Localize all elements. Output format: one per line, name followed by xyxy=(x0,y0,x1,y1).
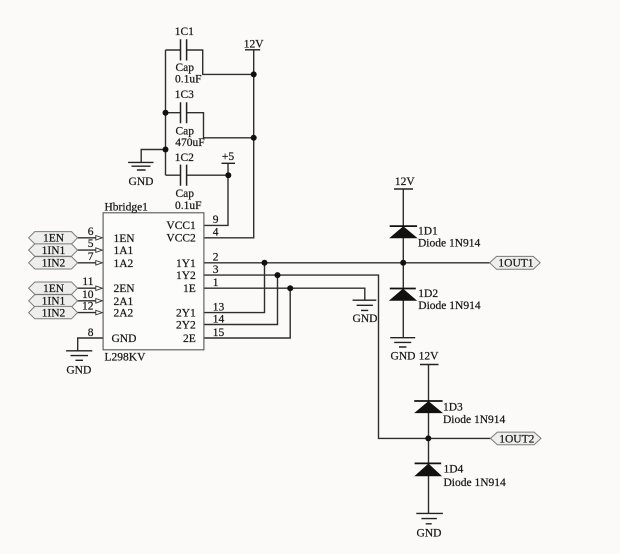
svg-text:2A1: 2A1 xyxy=(114,296,134,308)
svg-text:Cap: Cap xyxy=(176,126,195,138)
svg-text:12V: 12V xyxy=(395,176,416,188)
svg-text:VCC2: VCC2 xyxy=(166,233,196,245)
svg-text:1OUT1: 1OUT1 xyxy=(498,258,533,270)
svg-text:Cap: Cap xyxy=(176,188,195,200)
svg-text:14: 14 xyxy=(213,313,225,325)
svg-text:12V: 12V xyxy=(244,38,265,50)
svg-text:GND: GND xyxy=(417,528,442,540)
svg-text:470uF: 470uF xyxy=(175,137,204,149)
svg-text:1IN2: 1IN2 xyxy=(42,307,66,319)
svg-text:15: 15 xyxy=(213,327,225,339)
svg-text:GND: GND xyxy=(112,333,137,345)
svg-text:1EN: 1EN xyxy=(114,233,136,245)
svg-text:1IN1: 1IN1 xyxy=(42,245,66,257)
svg-text:1D3: 1D3 xyxy=(443,402,463,414)
svg-text:2Y2: 2Y2 xyxy=(176,320,196,332)
svg-text:Cap: Cap xyxy=(176,62,195,74)
svg-text:12: 12 xyxy=(82,301,94,313)
svg-text:Diode 1N914: Diode 1N914 xyxy=(444,477,507,489)
svg-text:5: 5 xyxy=(88,238,94,250)
svg-text:Diode 1N914: Diode 1N914 xyxy=(443,414,506,426)
svg-text:1C3: 1C3 xyxy=(175,89,194,101)
svg-text:1Y2: 1Y2 xyxy=(176,270,196,282)
svg-text:8: 8 xyxy=(88,327,94,339)
svg-text:Diode 1N914: Diode 1N914 xyxy=(418,237,481,249)
svg-text:1IN1: 1IN1 xyxy=(42,296,66,308)
svg-text:2E: 2E xyxy=(183,333,196,345)
svg-text:7: 7 xyxy=(88,251,94,263)
svg-text:1E: 1E xyxy=(183,283,196,295)
svg-text:1C1: 1C1 xyxy=(175,26,194,38)
svg-text:9: 9 xyxy=(213,214,219,226)
svg-text:3: 3 xyxy=(213,264,219,276)
svg-text:13: 13 xyxy=(213,301,225,313)
svg-text:0.1uF: 0.1uF xyxy=(175,74,202,86)
svg-text:11: 11 xyxy=(82,276,93,288)
svg-text:GND: GND xyxy=(353,313,378,325)
svg-text:0.1uF: 0.1uF xyxy=(175,200,202,212)
svg-text:1IN2: 1IN2 xyxy=(42,258,66,270)
svg-text:2Y1: 2Y1 xyxy=(176,308,196,320)
svg-text:1EN: 1EN xyxy=(43,283,65,295)
svg-text:VCC1: VCC1 xyxy=(166,220,196,232)
svg-text:1EN: 1EN xyxy=(43,233,65,245)
svg-text:GND: GND xyxy=(391,351,416,363)
svg-text:12V: 12V xyxy=(419,351,440,363)
svg-text:10: 10 xyxy=(82,289,94,301)
svg-text:1D2: 1D2 xyxy=(418,288,438,300)
svg-text:GND: GND xyxy=(129,176,154,188)
svg-text:2: 2 xyxy=(213,252,219,264)
svg-text:1A2: 1A2 xyxy=(114,258,134,270)
svg-text:6: 6 xyxy=(88,226,94,238)
svg-text:1A1: 1A1 xyxy=(114,245,134,257)
svg-text:Hbridge1: Hbridge1 xyxy=(105,202,149,214)
svg-text:1Y1: 1Y1 xyxy=(176,258,196,270)
svg-text:L298KV: L298KV xyxy=(105,352,147,364)
svg-text:GND: GND xyxy=(66,365,91,377)
svg-text:4: 4 xyxy=(213,227,219,239)
svg-text:1D1: 1D1 xyxy=(418,225,438,237)
svg-text:1OUT2: 1OUT2 xyxy=(499,433,534,445)
svg-text:1C2: 1C2 xyxy=(175,152,194,164)
svg-text:2EN: 2EN xyxy=(114,283,136,295)
svg-text:1D4: 1D4 xyxy=(444,464,464,476)
svg-text:Diode 1N914: Diode 1N914 xyxy=(418,300,481,312)
svg-text:1: 1 xyxy=(213,277,219,289)
svg-text:+5: +5 xyxy=(222,151,234,163)
svg-text:2A2: 2A2 xyxy=(114,308,134,320)
